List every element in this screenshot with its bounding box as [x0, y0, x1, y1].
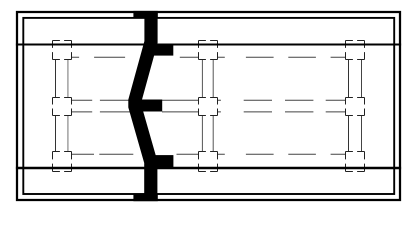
wire: dashed beam line row 3, bay 1 left of cut	[72, 153, 143, 155]
node: column square row 3 col 1	[53, 152, 72, 172]
node: column square row 3 col 3	[346, 152, 365, 172]
node: column square row 2 col 3	[346, 98, 365, 116]
node: column square row 1 col 2	[199, 41, 218, 60]
node: top wall poche cap	[133, 11, 157, 19]
node: column square row 2 col 1	[53, 98, 72, 116]
wire: beam lines row 2, bay 1 right of cut	[162, 100, 199, 112]
wire: beam vertical lines column line 1	[55, 41, 57, 171]
wire: beam line row 1, bay 1 right of cut	[180, 56, 199, 58]
wire: dashed beam lines row 2, bay 1 left of cut	[72, 100, 136, 112]
wire: beam line row 3, bay 1 right of cut	[177, 153, 199, 155]
wire: beam vertical lines column line 2	[201, 41, 203, 171]
wire: thick section cut polyline	[135, 11, 151, 201]
wire: outer wall rectangle	[17, 12, 400, 200]
wire: dashed beam line row 1, bay 2	[218, 56, 346, 58]
node: upper beam poche tab	[146, 45, 173, 56]
node: bottom wall poche cap	[133, 194, 157, 201]
wire: dashed beam line row 1, bay 1 left of cut	[72, 56, 141, 58]
node: column square row 1 col 3	[346, 41, 365, 60]
node: middle beam poche tab	[134, 100, 162, 112]
node: column square row 1 col 1	[53, 41, 72, 60]
node: column square row 2 col 2	[199, 98, 218, 116]
wire: dashed beam lines row 2, bay 2	[218, 100, 346, 112]
wire: horizontal wall line A	[16, 44, 401, 46]
wire: inner wall rectangle	[23, 18, 394, 194]
node: lower beam poche tab	[146, 155, 173, 168]
node: column square row 3 col 2	[199, 152, 218, 172]
wire: horizontal wall line B	[16, 167, 401, 170]
wire: beam vertical lines column line 3	[348, 41, 350, 171]
wire: dashed beam line row 3, bay 2	[218, 153, 346, 155]
